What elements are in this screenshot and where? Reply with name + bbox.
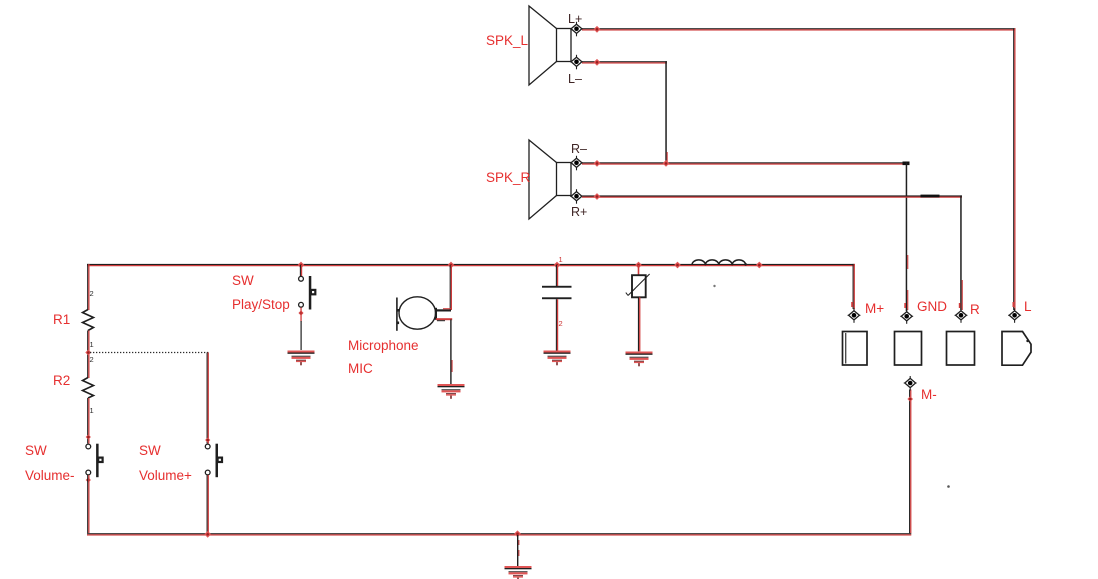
svg-text:SW: SW	[139, 443, 161, 458]
svg-text:Volume-: Volume-	[25, 468, 75, 483]
svg-text:M-: M-	[921, 387, 937, 402]
wire-end mark above Volume- switch	[86, 434, 91, 439]
wire bus to microphone	[450, 265, 452, 310]
switch SW Volume-	[86, 444, 104, 478]
terminal L-	[570, 55, 583, 70]
svg-text:1: 1	[90, 340, 94, 349]
junction mark on M- wire	[907, 396, 913, 402]
wire bus to varistor (red)	[638, 265, 640, 276]
svg-text:SPK_R: SPK_R	[486, 170, 531, 185]
svg-text:Microphone: Microphone	[348, 338, 419, 353]
wire Play/Stop to ground (red part)	[300, 308, 301, 322]
junction on R- wire	[594, 160, 601, 167]
junction on L+ wire	[594, 26, 601, 33]
resistor R1	[83, 310, 94, 331]
red tick above R terminal	[959, 303, 961, 308]
black thick segment on R+ wire	[921, 195, 940, 198]
svg-text:2: 2	[90, 289, 94, 298]
ground symbol below Play/Stop	[288, 351, 315, 366]
junction on L- wire	[594, 59, 601, 66]
junction node R1/R2 tap	[85, 350, 91, 356]
wire bus to Play/Stop switch	[300, 265, 302, 277]
wire Volume+ to bottom bus	[207, 475, 209, 533]
wire between R1 and R2	[87, 331, 89, 379]
pad square M+	[843, 332, 868, 366]
terminal R	[955, 308, 968, 323]
terminal R+	[570, 189, 583, 204]
terminal R-	[570, 156, 583, 171]
red tick above GND terminal	[904, 303, 906, 308]
junction bus / varistor	[635, 262, 642, 269]
svg-text:2: 2	[559, 319, 563, 328]
wire bus to capacitor	[556, 265, 558, 286]
wire net R+ horizontal to R	[582, 195, 962, 197]
svg-text:R2: R2	[53, 373, 70, 388]
ground symbol below capacitor	[544, 351, 571, 366]
junction bottom bus / Volume+	[204, 531, 211, 538]
wire tap drop to Volume+ switch	[207, 353, 209, 444]
junction L-/R- node	[663, 160, 670, 167]
stray dot 1	[713, 285, 715, 287]
wire microphone to ground (black)	[450, 320, 451, 385]
svg-text:R+: R+	[571, 205, 587, 219]
wire Play/Stop to ground (black part)	[301, 321, 302, 350]
ground symbol bottom center	[505, 566, 532, 579]
svg-text:M+: M+	[865, 301, 884, 316]
pad square R	[947, 332, 975, 366]
capacitor C1 plates	[542, 286, 572, 299]
wire main power bus	[87, 264, 855, 266]
wire net L vertical drop	[1013, 28, 1015, 310]
red tick above L terminal	[1013, 302, 1015, 307]
junction bus / inductor left	[674, 262, 681, 269]
svg-text:Volume+: Volume+	[139, 468, 192, 483]
wire net L+ horizontal	[582, 28, 1016, 30]
svg-text:2: 2	[90, 355, 94, 364]
junction bus / microphone	[448, 262, 455, 269]
stray dot 2	[947, 485, 950, 488]
ground symbol below varistor	[626, 352, 653, 367]
svg-text:SW: SW	[25, 443, 47, 458]
varistor RV1	[626, 274, 650, 297]
dashed tap net to Volume+ switch	[90, 352, 209, 354]
junction on R+ wire	[594, 193, 601, 200]
svg-text:GND: GND	[917, 299, 947, 314]
red tick on L- drop	[667, 152, 668, 162]
wire varistor to ground	[638, 297, 639, 351]
terminal GND	[900, 309, 913, 324]
red ticks on ground stub	[518, 540, 519, 545]
wire R vertical drop	[960, 195, 962, 310]
red tick on mic ground wire	[452, 360, 453, 372]
microphone MIC body	[397, 297, 453, 331]
wire bus corner down to M+	[853, 264, 855, 309]
junction bus / play-stop switch	[298, 262, 305, 269]
terminal L+	[570, 22, 583, 37]
switch SW Volume+	[205, 444, 223, 478]
ground symbol below microphone	[438, 384, 465, 399]
terminal L	[1008, 308, 1021, 323]
wire net L- horizontal	[582, 61, 667, 63]
pad pentagon L	[1002, 332, 1031, 366]
svg-text:MIC: MIC	[348, 361, 373, 376]
wire-end mark below Volume- switch	[86, 477, 91, 482]
switch SW Play/Stop	[299, 276, 317, 310]
pad square GND	[895, 332, 922, 366]
junction bus / inductor right	[756, 262, 763, 269]
wire L- vertical drop (black)	[665, 61, 667, 163]
wire bottom ground bus	[87, 533, 911, 535]
speaker SPK_L	[529, 6, 571, 85]
inductor L1	[692, 260, 746, 265]
svg-text:Play/Stop: Play/Stop	[232, 297, 290, 312]
red tick above M+ terminal	[851, 302, 853, 307]
wire-end mark below Play/Stop	[298, 310, 303, 315]
terminal M+	[848, 308, 861, 323]
svg-text:L+: L+	[568, 12, 582, 26]
svg-text:L–: L–	[568, 72, 582, 86]
corner blob at GND turn	[903, 162, 910, 166]
wire Volume- to bottom bus	[87, 475, 89, 533]
svg-text:R1: R1	[53, 312, 70, 327]
wire capacitor to ground	[556, 299, 558, 350]
wire ground stub (black)	[517, 535, 518, 566]
speaker SPK_R	[529, 140, 571, 219]
svg-text:1: 1	[559, 255, 563, 264]
wire bottom bus riser to M-	[909, 390, 911, 534]
junction bottom bus / ground	[514, 530, 521, 537]
wire net R- horizontal to GND	[582, 162, 907, 164]
junction bus / capacitor	[554, 262, 561, 269]
svg-text:1: 1	[90, 406, 94, 415]
wire R2 to Volume- switch	[87, 398, 89, 444]
svg-text:SPK_L: SPK_L	[486, 33, 529, 48]
wire GND vertical drop	[906, 162, 908, 311]
wire-end mark above Volume+ switch	[205, 437, 210, 442]
svg-text:L: L	[1024, 299, 1032, 314]
svg-text:R: R	[970, 302, 980, 317]
wire left rail top	[87, 264, 89, 310]
resistor R2	[83, 378, 94, 399]
svg-text:R–: R–	[571, 142, 587, 156]
terminal M-	[904, 376, 917, 391]
svg-text:SW: SW	[232, 273, 254, 288]
